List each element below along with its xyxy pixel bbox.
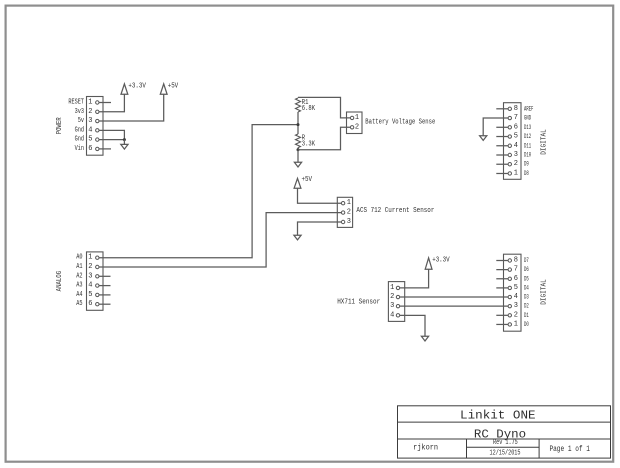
svg-text:6: 6 [88,300,92,308]
wire DIGITAL bottom pin5 stub [496,287,508,289]
connector J1 POWER (6-pin header) [87,97,104,156]
svg-text:4: 4 [88,282,92,290]
svg-text:1: 1 [355,114,359,122]
svg-text:ACS 712 Current Sensor: ACS 712 Current Sensor [356,207,434,215]
svg-text:D5: D5 [524,275,529,282]
svg-text:POWER: POWER [56,117,64,135]
svg-text:D12: D12 [524,133,531,140]
svg-text:4: 4 [514,293,518,301]
title block [398,406,611,458]
pin 8 of J6 [508,107,511,110]
pin 4 of J7 [508,295,511,298]
power symbol +3.3V (HX711) [425,258,432,269]
connector J3 Battery Voltage Sense (2-pin) [347,112,363,134]
ground (ACS712) [294,235,301,240]
pin 5 of ANALOG [96,293,99,296]
svg-text:5: 5 [88,291,92,299]
svg-text:+3.3V: +3.3V [432,256,450,264]
svg-text:2: 2 [514,311,518,319]
svg-text:A2: A2 [76,272,82,280]
pin 1 of J3 [350,116,353,119]
svg-text:3: 3 [88,272,92,280]
wire DIGITAL bottom pin1 stub [496,323,508,325]
wire +5V to ACS712 pin1 [298,188,342,203]
svg-text:2: 2 [390,293,394,301]
pin 4 of ANALOG [96,284,99,287]
svg-text:6.8K: 6.8K [302,105,316,113]
svg-text:1: 1 [88,99,92,107]
svg-text:GND: GND [524,115,531,122]
wire POWER pin5 to gnd junction [99,139,124,141]
wire R1 to R [297,112,299,134]
wire DIGITAL top pin5 stub [496,136,508,138]
connector J2 ANALOG (6-pin header) [87,252,104,310]
svg-text:Battery Voltage Sense: Battery Voltage Sense [365,118,435,126]
ground (POWER) [121,144,128,149]
svg-text:DIGITAL: DIGITAL [541,279,549,305]
wire ACS712 pin3 to ground [298,222,342,235]
wire HX711 pin3 to DIGITAL pin3 (D2) [400,305,508,307]
svg-text:3: 3 [514,302,518,310]
pin 1 of J5 [396,286,399,289]
resistor R 3.3K [296,134,301,148]
svg-text:+3.3V: +3.3V [128,83,146,91]
wire DIGITAL top pin2 stub [496,163,508,165]
svg-text:D2: D2 [524,303,529,310]
svg-text:rjkorn: rjkorn [413,444,438,453]
svg-text:Linkit ONE: Linkit ONE [460,408,536,422]
svg-text:RESET: RESET [68,99,84,107]
wire POWER pin4 to gnd junction [99,130,124,139]
pin 2 of J5 [396,295,399,298]
svg-text:8: 8 [514,105,518,113]
junction POWER gnd node [123,138,126,141]
junction divider bottom [297,148,300,151]
svg-text:2: 2 [88,108,92,116]
pin 1 of POWER [96,101,99,104]
svg-text:3: 3 [514,151,518,159]
svg-text:HX711 Sensor: HX711 Sensor [337,298,380,306]
wire POWER pin3 to +5V [99,94,164,121]
svg-text:5: 5 [88,136,92,144]
pin 3 of J5 [396,304,399,307]
wire DIGITAL top pin6 stub [496,126,508,128]
svg-text:Gnd: Gnd [75,136,84,144]
wire ANALOG pin6 stub [99,303,111,305]
wire divider bottom to J3 pin2 [298,127,350,150]
wire DIGITAL GND to ground [483,118,508,136]
svg-text:D6: D6 [524,266,529,273]
wire POWER pin1 stub [99,102,111,104]
svg-text:Rev 1.75: Rev 1.75 [493,439,518,447]
pin 1 of ANALOG [96,256,99,259]
pin 4 of POWER [96,129,99,132]
svg-text:D4: D4 [524,284,529,291]
svg-text:2: 2 [514,160,518,168]
pin 3 of POWER [96,119,99,122]
svg-text:+5V: +5V [168,83,179,91]
svg-text:8: 8 [514,257,518,265]
svg-text:6: 6 [88,145,92,153]
ground (DIGITAL top) [480,136,487,141]
wire net A1 to ACS712 pin2 [99,213,341,267]
svg-text:D7: D7 [524,257,529,264]
wire net A0 to divider junction [99,125,298,258]
svg-text:5: 5 [514,133,518,141]
svg-text:1: 1 [88,254,92,262]
wire DIGITAL bottom pin7 stub [496,269,508,271]
wire DIGITAL top pin4 stub [496,145,508,147]
svg-text:7: 7 [514,114,518,122]
svg-text:3: 3 [347,218,351,226]
pin 2 of POWER [96,110,99,113]
resistor R1 6.8K [296,98,301,112]
ground (divider) [294,162,301,167]
wire battery+ to J3 pin1 [298,97,350,118]
wire DIGITAL bottom pin2 stub [496,314,508,316]
svg-text:D10: D10 [524,152,531,159]
wire HX711 pin2 to DIGITAL pin4 (D3) [400,296,508,298]
wire ANALOG pin4 stub [99,285,111,287]
svg-text:6: 6 [514,275,518,283]
wire to ground [123,140,125,145]
pin 5 of J7 [508,286,511,289]
svg-text:4: 4 [88,126,92,134]
pin 4 of J6 [508,144,511,147]
pin 6 of ANALOG [96,303,99,306]
wire POWER pin2 to +3.3V [99,94,124,111]
svg-text:6: 6 [514,123,518,131]
pin 1 of J7 [508,323,511,326]
wire HX711 pin4 to ground [400,315,425,336]
connector J7 DIGITAL bottom (8-pin) [504,254,522,331]
pin 7 of J6 [508,116,511,119]
connector J4 ACS712 (3-pin) [337,197,352,227]
svg-text:2: 2 [88,263,92,271]
wire DIGITAL top pin3 stub [496,154,508,156]
wire DIGITAL bottom pin6 stub [496,278,508,280]
svg-text:A3: A3 [76,282,82,290]
ground (HX711) [421,336,428,341]
wire POWER pin6 stub [99,148,111,150]
pin 5 of J6 [508,135,511,138]
svg-text:D0: D0 [524,321,529,328]
pin 1 of J4 [341,202,344,205]
svg-text:3: 3 [390,302,394,310]
connector J5 HX711 (4-pin) [388,282,404,322]
svg-text:1: 1 [390,284,394,292]
svg-text:3.3K: 3.3K [302,140,316,148]
svg-text:A4: A4 [76,291,82,299]
svg-text:Gnd: Gnd [75,126,84,134]
pin 3 of J6 [508,153,511,156]
svg-text:7: 7 [514,266,518,274]
svg-text:4: 4 [514,142,518,150]
svg-text:1: 1 [514,320,518,328]
pin 7 of J7 [508,268,511,271]
junction node A0/divider [297,123,300,126]
wire R to gnd node [297,148,299,150]
svg-text:D3: D3 [524,294,529,301]
svg-text:1: 1 [514,169,518,177]
pin 5 of POWER [96,138,99,141]
svg-text:3: 3 [88,117,92,125]
power symbol +5V [160,84,167,94]
pin 4 of J5 [396,314,399,317]
svg-text:5: 5 [514,284,518,292]
pin 6 of J6 [508,126,511,129]
svg-text:5v: 5v [78,117,84,125]
svg-text:A0: A0 [76,254,82,262]
pin 2 of J3 [350,126,353,129]
svg-text:Page 1 of 1: Page 1 of 1 [549,445,590,454]
wire DIGITAL top pin8 stub [496,108,508,110]
wire DIGITAL top pin1 stub [496,172,508,174]
svg-text:1: 1 [347,199,351,207]
power symbol +3.3V [121,84,128,94]
wire to ground [297,150,299,163]
pin 1 of J6 [508,172,511,175]
svg-text:2: 2 [347,209,351,217]
pin 6 of POWER [96,147,99,150]
svg-text:D9: D9 [524,161,529,168]
svg-text:+5V: +5V [302,176,313,184]
power symbol +5V (ACS) [294,178,301,188]
svg-text:4: 4 [390,311,394,319]
pin 3 of J7 [508,304,511,307]
connector J6 DIGITAL top (8-pin) [504,103,522,180]
svg-text:A5: A5 [76,300,82,308]
pin 8 of J7 [508,259,511,262]
wire ANALOG pin3 stub [99,275,111,277]
svg-text:D1: D1 [524,312,529,319]
svg-text:D13: D13 [524,124,531,131]
pin 3 of J4 [341,220,344,223]
wire DIGITAL bottom pin8 stub [496,260,508,262]
svg-text:DIGITAL: DIGITAL [541,129,549,155]
wire ANALOG pin5 stub [99,294,111,296]
pin 2 of J6 [508,163,511,166]
svg-text:AREF: AREF [524,105,534,112]
svg-text:D8: D8 [524,170,529,177]
pin 3 of ANALOG [96,275,99,278]
svg-text:A1: A1 [76,263,82,271]
svg-text:3v3: 3v3 [75,108,84,116]
svg-text:ANALOG: ANALOG [56,271,64,292]
pin 2 of J4 [341,211,344,214]
svg-text:12/15/2015: 12/15/2015 [490,450,521,458]
svg-text:Vin: Vin [75,145,84,153]
svg-text:2: 2 [355,123,359,131]
pin 6 of J7 [508,277,511,280]
pin 2 of J7 [508,314,511,317]
pin 2 of ANALOG [96,265,99,268]
wire HX711 pin1 to +3.3V [400,269,429,288]
svg-text:D11: D11 [524,142,531,149]
